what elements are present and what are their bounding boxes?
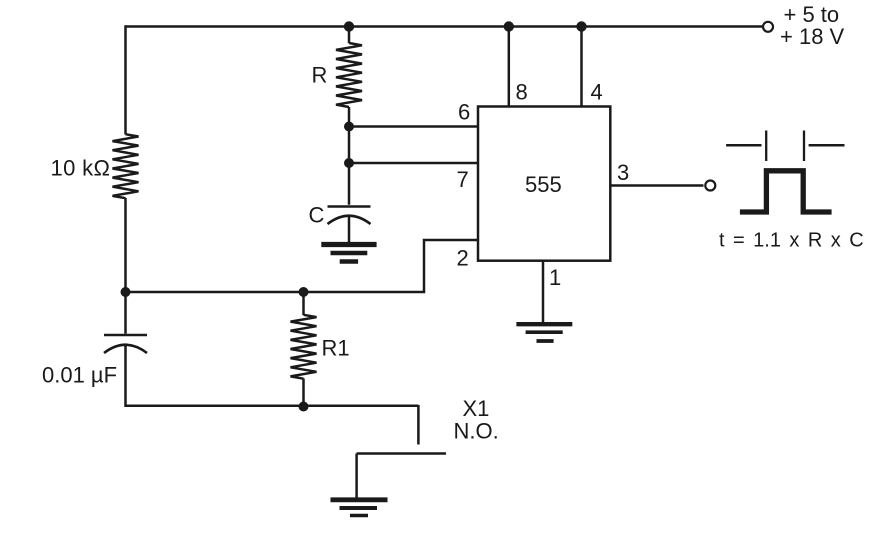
svg-text:N.O.: N.O.: [454, 419, 499, 444]
svg-text:0.01 µF: 0.01 µF: [42, 363, 117, 388]
svg-text:C: C: [309, 203, 325, 228]
svg-text:+ 18 V: + 18 V: [780, 24, 845, 49]
svg-text:6: 6: [458, 100, 470, 125]
svg-text:X1: X1: [463, 396, 490, 421]
svg-text:4: 4: [591, 80, 603, 105]
svg-text:1: 1: [549, 265, 561, 290]
svg-text:R: R: [312, 63, 328, 88]
svg-text:555: 555: [525, 172, 562, 197]
svg-text:2: 2: [457, 246, 469, 271]
svg-text:R1: R1: [322, 336, 350, 361]
svg-text:8: 8: [516, 80, 528, 105]
svg-text:7: 7: [457, 167, 469, 192]
svg-text:10 kΩ: 10 kΩ: [51, 156, 111, 181]
svg-text:t = 1.1 x R x C: t = 1.1 x R x C: [719, 230, 864, 252]
svg-text:3: 3: [617, 160, 629, 185]
